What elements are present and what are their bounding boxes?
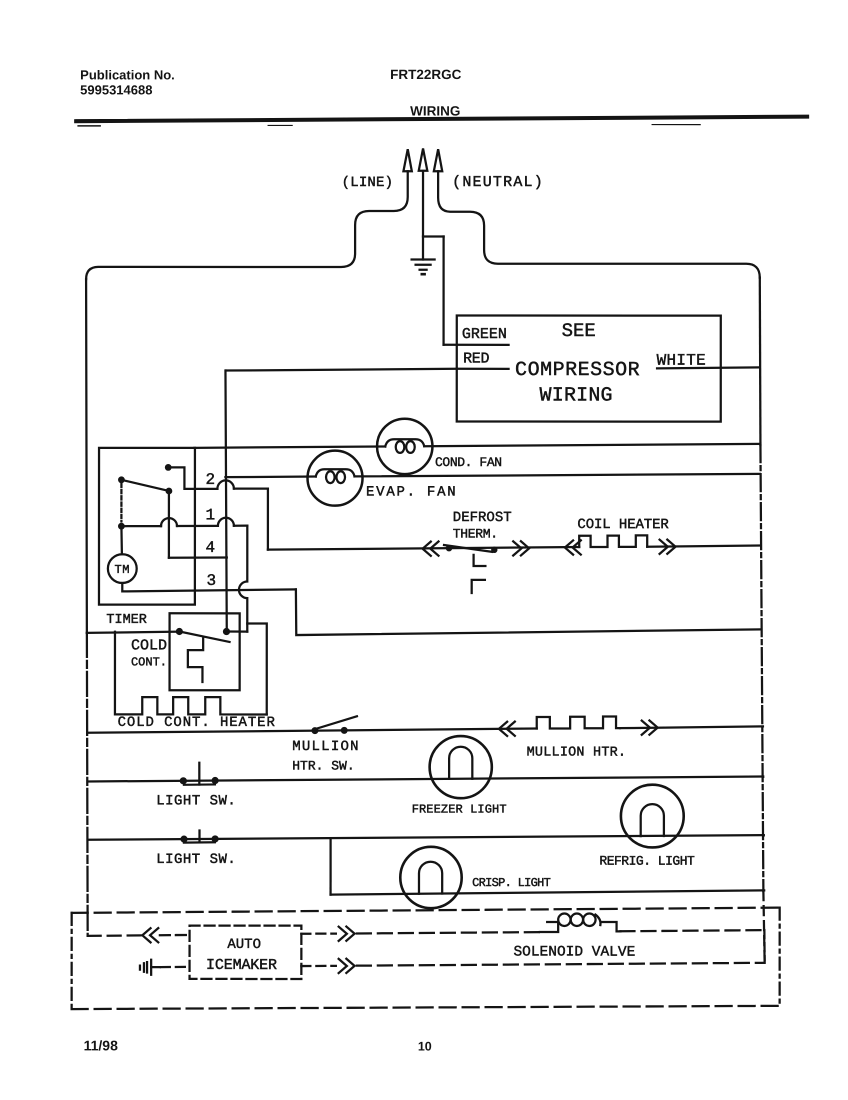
svg-text:EVAP. FAN: EVAP. FAN xyxy=(366,484,457,500)
wire green underline xyxy=(444,344,509,346)
cold control contact dot left xyxy=(176,628,183,635)
plug prong arrow middle xyxy=(419,148,428,170)
crisp light filament xyxy=(419,862,442,894)
wire branch to heater enclosure xyxy=(247,624,267,715)
water valve connector bars xyxy=(140,960,151,975)
wire icemaker right vertical dashed xyxy=(763,930,766,963)
svg-text:COIL HEATER: COIL HEATER xyxy=(577,517,669,533)
svg-text:MULLION HTR.: MULLION HTR. xyxy=(527,746,627,761)
wire refrig light row xyxy=(88,835,764,840)
mullion switch contact dot left xyxy=(311,727,318,734)
cold control heater enclosure castellated xyxy=(115,632,267,715)
wire crisp light branch vertical xyxy=(329,838,331,894)
svg-text:TIMER: TIMER xyxy=(106,613,147,628)
svg-text:WIRING: WIRING xyxy=(540,385,613,408)
wire icemaker row 2 box to chevrons dashed xyxy=(301,965,336,967)
cond fan winding loop 2 xyxy=(406,441,415,453)
wire icemaker row 1 right dashed xyxy=(357,932,545,934)
hump terminal 1 wire over contact vertical xyxy=(161,518,177,526)
wire contact middle drop vertical xyxy=(168,491,170,558)
plug prong arrow right xyxy=(434,149,442,171)
freezer light filament xyxy=(449,747,472,779)
wire cond fan row left xyxy=(194,446,385,447)
header rule lower tick mid xyxy=(268,124,292,126)
wire mullion row right xyxy=(620,726,763,728)
mullion switch arm xyxy=(317,716,357,728)
left border lower dashed xyxy=(87,633,88,936)
hump terminal 2 wire over red vertical xyxy=(217,480,234,488)
svg-text:SEE: SEE xyxy=(562,320,596,342)
svg-text:3: 3 xyxy=(206,572,216,590)
header rule xyxy=(76,116,807,121)
wire cond fan row right xyxy=(424,444,760,447)
wire terminal 2 to defrost drop xyxy=(234,489,268,550)
wire ground prong stem xyxy=(422,171,424,260)
defrost therm contact dot left xyxy=(446,545,452,551)
timer box xyxy=(99,448,195,605)
defrost therm contact dot right xyxy=(491,547,497,553)
wire cold control right dot to vertical xyxy=(226,630,247,632)
svg-text:CRISP. LIGHT: CRISP. LIGHT xyxy=(472,876,551,890)
wire timer terminal 4 xyxy=(169,556,227,558)
svg-text:WIRING: WIRING xyxy=(410,103,460,118)
svg-text:11/98: 11/98 xyxy=(84,1037,118,1053)
cond fan winding plateau xyxy=(385,439,424,446)
connector chevrons right of coil heater xyxy=(660,540,676,554)
solenoid coil lead left xyxy=(540,922,558,932)
svg-text:COMPRESSOR: COMPRESSOR xyxy=(515,359,640,382)
hump terminal 1 wire over red vertical xyxy=(218,518,234,526)
svg-text:RED: RED xyxy=(463,351,489,368)
icemaker compartment dashed box left xyxy=(71,913,73,1009)
light switch 1 plunger xyxy=(198,763,200,785)
cond fan motor circle xyxy=(377,419,432,474)
cond fan winding loop 1 xyxy=(396,441,405,453)
water valve lead xyxy=(151,966,160,968)
evap fan motor circle xyxy=(308,451,363,506)
freezer light lamp circle xyxy=(430,736,492,798)
light switch 2 plunger xyxy=(198,831,200,843)
svg-text:THERM.: THERM. xyxy=(453,527,498,542)
mullion heater element square wave xyxy=(537,716,620,728)
defrost therm bracket upper xyxy=(474,555,486,566)
svg-text:LIGHT SW.: LIGHT SW. xyxy=(156,793,236,809)
evap fan winding loop 2 xyxy=(336,471,345,483)
wire white to right border xyxy=(657,367,760,368)
svg-text:COLD CONT. HEATER: COLD CONT. HEATER xyxy=(118,715,276,731)
svg-text:FREEZER LIGHT: FREEZER LIGHT xyxy=(412,802,507,816)
wire ground branch horizontal xyxy=(423,235,444,237)
light switch 2 blade xyxy=(184,841,215,844)
defrost therm bracket lower xyxy=(472,580,485,593)
svg-text:10: 10 xyxy=(418,1039,432,1053)
wire TM motor to terminal 3 xyxy=(122,583,296,591)
coil heater element square wave xyxy=(579,535,647,547)
connector chevrons right of mullion heater xyxy=(642,720,658,734)
wire crisp light row xyxy=(331,890,765,894)
wire icemaker row 1 box to chevrons dashed xyxy=(301,932,336,934)
wire red horizontal to left xyxy=(226,369,457,371)
wire timer terminal 1 left xyxy=(121,525,161,527)
svg-text:2: 2 xyxy=(206,471,216,489)
svg-text:ICEMAKER: ICEMAKER xyxy=(206,957,277,974)
wire freezer light row xyxy=(88,776,764,781)
ground symbol bar 1 xyxy=(412,258,435,260)
wire line prong to left border xyxy=(86,171,408,279)
light switch 1 contact dot right xyxy=(212,777,219,784)
refrig light filament xyxy=(641,804,664,836)
wire evap fan row right xyxy=(355,474,760,477)
right border lower dashed xyxy=(763,891,764,963)
svg-text:GREEN: GREEN xyxy=(462,326,507,343)
timer contact dot top xyxy=(165,464,172,471)
right border middle dash-dot xyxy=(760,445,763,891)
crisp light lamp circle xyxy=(400,847,461,908)
wire terminal 3 drop and long row to right border xyxy=(296,589,760,635)
svg-text:REFRIG. LIGHT: REFRIG. LIGHT xyxy=(599,854,695,869)
svg-text:CONT.: CONT. xyxy=(131,655,167,669)
svg-text:4: 4 xyxy=(205,539,215,557)
light switch 2 contact dot left xyxy=(180,836,187,843)
wire icemaker row 1 left dashed xyxy=(88,934,143,937)
wire red underline xyxy=(457,368,509,370)
auto icemaker dashed box xyxy=(190,926,302,979)
svg-text:1: 1 xyxy=(206,506,216,524)
connector chevrons icemaker row 1 right xyxy=(339,927,355,941)
solenoid coil loop 1 xyxy=(558,914,570,926)
mullion switch contact dot right xyxy=(341,727,348,734)
left border upper xyxy=(86,279,87,633)
wire icemaker row 2 right dashed xyxy=(357,963,765,966)
cold control contact dot right xyxy=(223,628,230,635)
icemaker compartment dashed box bottom xyxy=(72,1006,780,1010)
timer contact dot lower-left xyxy=(118,523,125,530)
svg-text:5995314688: 5995314688 xyxy=(80,82,152,97)
svg-text:LIGHT SW.: LIGHT SW. xyxy=(156,852,236,868)
wire icemaker row 2 left dashed xyxy=(161,966,190,969)
solenoid coil lead right xyxy=(595,915,620,932)
cold control bellows staircase xyxy=(188,639,203,683)
svg-text:MULLION: MULLION xyxy=(292,739,360,755)
wire terminal 1 middle xyxy=(177,525,218,527)
light switch 2 contact dot right xyxy=(211,835,218,842)
header rule lower tick right xyxy=(652,124,700,126)
light switch 1 blade xyxy=(184,783,215,786)
wire green drop vertical xyxy=(442,237,444,345)
icemaker compartment dashed box right xyxy=(779,908,781,1006)
svg-text:(LINE): (LINE) xyxy=(342,175,394,191)
wire neutral prong to right border xyxy=(438,171,760,277)
svg-text:FRT22RGC: FRT22RGC xyxy=(390,67,462,82)
wire timer terminal 2 xyxy=(168,467,217,489)
ground symbol bar 4 xyxy=(422,273,425,276)
ground symbol bar 3 xyxy=(420,269,427,271)
timer switch arm xyxy=(121,480,170,492)
wire defrost row right xyxy=(647,545,760,546)
wire red vertical xyxy=(225,371,226,632)
compressor box xyxy=(457,316,721,422)
wire evap fan row left xyxy=(225,475,315,478)
timer linkage dashed xyxy=(120,484,122,521)
wire left border to cold control xyxy=(87,632,180,633)
wire icemaker row 1 to box dashed xyxy=(160,934,190,937)
svg-text:DEFROST: DEFROST xyxy=(453,510,512,526)
timer contact dot middle xyxy=(166,488,173,495)
wire icemaker row 1 far right dashed xyxy=(620,930,764,931)
right border upper xyxy=(759,278,762,446)
ground symbol bar 2 xyxy=(416,264,431,266)
wire defrost row left xyxy=(268,547,579,550)
evap fan winding loop 1 xyxy=(326,471,335,483)
svg-text:COND. FAN: COND. FAN xyxy=(435,455,502,470)
svg-text:TM: TM xyxy=(114,563,129,577)
connector chevrons left of mullion heater xyxy=(499,722,515,736)
wire terminal 1 vertical with hop xyxy=(239,526,247,632)
TM motor circle xyxy=(108,554,137,583)
svg-text:Publication No.: Publication No. xyxy=(80,67,175,82)
evap fan winding plateau xyxy=(316,469,355,476)
connector chevrons left of defrost therm xyxy=(423,541,439,555)
header rule lower tick left xyxy=(78,125,100,127)
wire terminal 1 to corner xyxy=(234,525,247,527)
connector chevrons icemaker row 2 right xyxy=(339,959,355,973)
cold control box xyxy=(170,613,240,690)
solenoid coil loop 2 xyxy=(571,914,583,926)
svg-text:HTR. SW.: HTR. SW. xyxy=(292,758,354,773)
wire mullion row left xyxy=(88,728,537,733)
svg-text:(NEUTRAL): (NEUTRAL) xyxy=(452,174,544,191)
icemaker compartment dashed box top xyxy=(72,907,780,913)
light switch 1 contact dot left xyxy=(180,777,187,784)
timer contact dot left xyxy=(118,476,125,483)
connector chevrons left of coil heater xyxy=(565,540,581,554)
plug prong arrow left xyxy=(403,149,411,171)
svg-text:SOLENOID VALVE: SOLENOID VALVE xyxy=(513,945,635,961)
connector chevrons icemaker left xyxy=(142,928,158,942)
solenoid coil loop 3 xyxy=(583,914,595,926)
connector chevrons right of defrost therm xyxy=(513,541,529,555)
wire lower-left dot to TM motor xyxy=(120,526,123,554)
svg-text:COLD: COLD xyxy=(131,637,167,654)
defrost therm switch arm xyxy=(444,545,492,552)
svg-text:AUTO: AUTO xyxy=(227,937,261,953)
cold control switch arm xyxy=(179,632,229,642)
refrig light lamp circle xyxy=(621,785,684,848)
